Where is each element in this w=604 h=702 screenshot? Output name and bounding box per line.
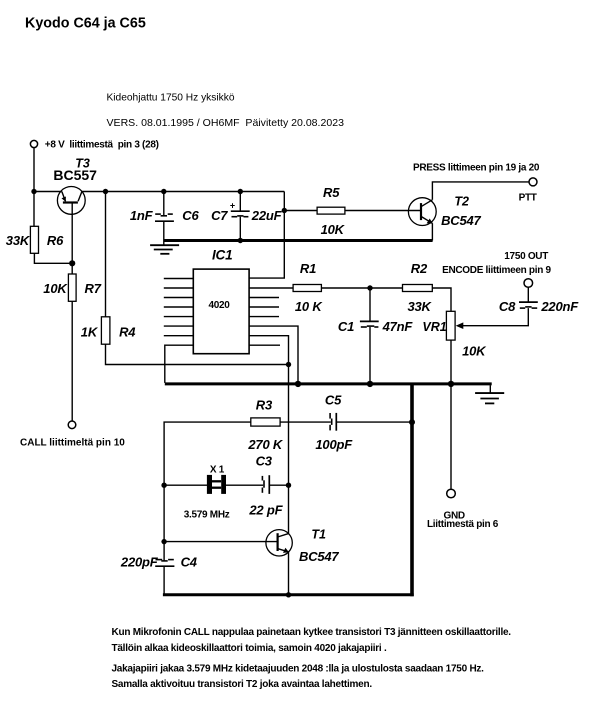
ground symbol right — [475, 385, 504, 403]
capacitor C3 — [262, 475, 288, 494]
label T2 — [454, 194, 469, 208]
label VR1 — [422, 320, 446, 334]
label Liittimestä pin 6 — [427, 519, 499, 530]
label +8V — [45, 140, 159, 151]
wire to R5 — [284, 210, 317, 212]
oscillator left vertical wire — [163, 566, 165, 594]
label 33K R2 — [408, 299, 433, 314]
svg-text:BC547: BC547 — [299, 549, 339, 564]
terminal PTT — [529, 178, 537, 186]
svg-text:BC547: BC547 — [441, 213, 481, 228]
label 22 pF — [248, 502, 283, 517]
node C7 top — [238, 189, 243, 194]
ground bus lower — [165, 382, 492, 385]
wire T3 base down — [71, 203, 73, 264]
label R4 — [119, 325, 136, 340]
label 4020 — [209, 300, 231, 311]
resistor R1 — [293, 285, 321, 292]
wire crystal to C3 — [226, 484, 263, 486]
label C8 — [499, 299, 516, 314]
wire R1 to R2 — [321, 287, 402, 289]
node C7 ground — [238, 238, 243, 243]
wire R2 to VR1 — [432, 288, 451, 311]
svg-text:1nF: 1nF — [130, 208, 154, 223]
wire IC pin to R1 — [249, 287, 293, 289]
wire R5 to T2 base — [345, 210, 421, 212]
svg-text:4020: 4020 — [209, 300, 231, 311]
svg-text:10 K: 10 K — [295, 299, 323, 314]
wire R7 to CALL — [71, 301, 73, 421]
svg-text:R4: R4 — [119, 325, 136, 340]
capacitor C6 — [155, 192, 174, 246]
label BC547 T2 — [441, 213, 481, 228]
svg-text:Kideohjattu 1750 Hz yksikkö: Kideohjattu 1750 Hz yksikkö — [107, 93, 235, 104]
node T1 base left — [161, 539, 166, 544]
wire T2 collector to PTT — [432, 182, 529, 200]
capacitor C7 — [230, 192, 250, 241]
wire to crystal — [164, 484, 207, 486]
label 47nF — [382, 319, 414, 334]
label C3 — [256, 454, 273, 469]
svg-text:10K: 10K — [321, 222, 346, 237]
label 100pF — [315, 437, 353, 452]
VR1 wiper arrow — [456, 322, 464, 329]
wire R6 bottom to base node — [34, 253, 72, 263]
terminal +8V — [30, 140, 37, 147]
svg-text:R7: R7 — [85, 281, 102, 296]
svg-text:T1: T1 — [311, 528, 326, 542]
wire node to R7 — [71, 263, 73, 274]
label R7 — [85, 281, 102, 296]
wire T1 emitter to bottom bus — [288, 552, 290, 595]
wire IC pin7 clock net down — [249, 336, 288, 534]
node clock/R4 — [286, 362, 291, 367]
IC right pin stubs — [249, 298, 280, 346]
svg-text:C3: C3 — [256, 454, 273, 469]
node base/R7 — [69, 260, 75, 266]
capacitor C4 — [155, 560, 174, 567]
label PRESS — [413, 163, 540, 174]
label T3 — [75, 156, 90, 170]
svg-text:33K: 33K — [6, 233, 31, 248]
label 270 K — [247, 437, 284, 452]
svg-text:Kyodo C64 ja C65: Kyodo C64 ja C65 — [25, 16, 146, 32]
ground under C6 — [150, 245, 179, 254]
wire T2 emitter to bus — [431, 223, 433, 240]
transistor T3 — [57, 187, 85, 215]
svg-text:10K: 10K — [43, 281, 68, 296]
label PTT — [519, 192, 537, 203]
terminal ENCODE — [524, 279, 533, 288]
label BC557 — [53, 167, 97, 183]
svg-text:+8 V liittimestä pin 3 (28): +8 V liittimestä pin 3 (28) — [45, 140, 159, 151]
node R4 top — [103, 189, 108, 194]
svg-text:VERS. 08.01.1995 / OH6MF Päiv: VERS. 08.01.1995 / OH6MF Päivitetty 20.0… — [107, 117, 345, 129]
label 33K — [6, 233, 31, 248]
crystal X1 — [207, 475, 226, 494]
capacitor C1 — [360, 288, 379, 383]
label 22uF — [251, 208, 283, 223]
wire +8V corner down to IC pin1 — [249, 192, 284, 279]
label ENCODE — [442, 265, 551, 276]
thick ground vertical right — [410, 383, 414, 596]
capacitor C5 — [330, 413, 412, 431]
svg-text:C6: C6 — [182, 208, 199, 223]
label 220pF — [120, 555, 159, 570]
label 10 K — [295, 299, 323, 314]
svg-text:Tällöin alkaa kideoskillaattor: Tällöin alkaa kideoskillaattori toimia, … — [112, 643, 387, 654]
svg-text:C5: C5 — [325, 393, 342, 408]
svg-text:220nF: 220nF — [540, 299, 579, 314]
svg-text:22 pF: 22 pF — [248, 502, 283, 517]
node C1 top — [367, 285, 372, 290]
svg-text:C1: C1 — [338, 319, 354, 334]
label 220nF — [540, 299, 579, 314]
label 1K — [81, 325, 99, 340]
svg-text:33K: 33K — [408, 299, 433, 314]
label 10K R7 — [43, 281, 68, 296]
svg-text:C7: C7 — [211, 208, 228, 223]
svg-text:T2: T2 — [454, 194, 469, 208]
wire wiper to C8 — [463, 308, 529, 326]
svg-text:Samalla aktivoituu transistori: Samalla aktivoituu transistori T2 joka a… — [112, 679, 373, 690]
wire IC pin6 to ground bus — [249, 326, 298, 383]
label IC1 — [212, 247, 232, 262]
svg-text:CALL liittimeltä pin 10: CALL liittimeltä pin 10 — [20, 437, 125, 448]
svg-text:R3: R3 — [256, 398, 273, 413]
label X 1 — [210, 464, 225, 475]
node junction +8V rail left — [31, 189, 36, 194]
IC left pin 8 to ground bus — [165, 345, 194, 383]
svg-text:C4: C4 — [181, 555, 198, 570]
subtitle line 1 — [107, 93, 235, 104]
label C6 — [182, 208, 199, 223]
terminal GND — [447, 489, 456, 498]
node xtal left — [161, 483, 166, 488]
svg-text:R5: R5 — [323, 185, 340, 200]
transistor T1 — [266, 530, 292, 556]
label R2 — [411, 261, 428, 276]
label R3 — [256, 398, 273, 413]
node C6 top — [161, 189, 166, 194]
thick ground bottom bus — [163, 593, 414, 596]
potentiometer VR1 — [446, 311, 455, 340]
svg-text:10K: 10K — [462, 344, 487, 359]
label CALL — [20, 437, 125, 448]
svg-text:220pF: 220pF — [120, 555, 159, 570]
subtitle line 2 — [107, 117, 345, 129]
svg-text:C8: C8 — [499, 299, 516, 314]
label C4 — [181, 555, 198, 570]
label R5 — [323, 185, 340, 200]
wire rail T3 to corner — [82, 191, 284, 193]
svg-text:270 K: 270 K — [247, 437, 284, 452]
wire R3 to C5 — [280, 421, 331, 423]
label BC547 T1 — [299, 549, 339, 564]
transistor T2 — [408, 198, 436, 226]
label 1750 OUT — [504, 251, 548, 262]
wire +8V terminal down to rail — [33, 148, 35, 227]
resistor R7 — [68, 274, 76, 301]
note paragraph line 2 — [112, 643, 387, 654]
resistor R4 — [101, 317, 110, 344]
IC U1 4020 body — [193, 269, 249, 354]
node bus pin6 — [295, 381, 301, 387]
resistor R5 — [317, 207, 345, 214]
node R5 branch — [282, 208, 287, 213]
title — [25, 16, 146, 32]
label T1 — [311, 528, 326, 542]
node emitter bus — [286, 592, 291, 597]
label C7 — [211, 208, 228, 223]
wire T1 base — [164, 541, 278, 543]
svg-text:BC557: BC557 — [53, 167, 97, 183]
svg-text:VR1: VR1 — [422, 320, 446, 334]
note paragraph line 3 — [112, 664, 485, 675]
label R6 — [47, 233, 64, 248]
IC left pin stubs — [164, 279, 194, 336]
node bus VR1 — [448, 381, 454, 387]
label C5 — [325, 393, 342, 408]
resistor R2 — [403, 285, 433, 292]
svg-text:+: + — [230, 200, 235, 210]
svg-text:PRESS littimeen pin 19 ja 20: PRESS littimeen pin 19 ja 20 — [413, 163, 540, 174]
capacitor C8 — [519, 287, 538, 308]
svg-text:R1: R1 — [300, 261, 316, 276]
svg-text:Jakajapiiri jakaa 3.579 MHz ki: Jakajapiiri jakaa 3.579 MHz kidetaajuude… — [112, 664, 485, 675]
node C5 ground — [409, 419, 415, 425]
svg-text:47nF: 47nF — [382, 319, 414, 334]
ground bus upper — [164, 239, 432, 242]
svg-text:PTT: PTT — [519, 192, 537, 203]
svg-text:1K: 1K — [81, 325, 99, 340]
svg-text:ENCODE liittimeen pin 9: ENCODE liittimeen pin 9 — [442, 265, 551, 276]
wire rail down to R4 — [105, 192, 107, 317]
node C3 clock — [286, 483, 291, 488]
label 10K under R5 — [321, 222, 346, 237]
svg-text:3.579 MHz: 3.579 MHz — [184, 510, 230, 521]
wire VR1 bottom to GND terminal — [450, 340, 452, 489]
svg-text:R2: R2 — [411, 261, 428, 276]
svg-text:Liittimestä pin 6: Liittimestä pin 6 — [427, 519, 499, 530]
svg-text:IC1: IC1 — [212, 247, 232, 262]
label R1 — [300, 261, 316, 276]
wire R4 bottom to clock net — [106, 344, 289, 364]
terminal CALL — [68, 421, 76, 429]
label GND — [444, 510, 465, 521]
label 1nF — [130, 208, 154, 223]
label C1 — [338, 319, 354, 334]
note paragraph line 1 — [112, 627, 512, 638]
svg-text:1750 OUT: 1750 OUT — [504, 251, 548, 262]
svg-text:Kun Mikrofonin CALL nappulaa p: Kun Mikrofonin CALL nappulaa painetaan k… — [112, 627, 512, 638]
resistor R6 — [30, 226, 38, 253]
wire rail to T3 emitter — [34, 191, 62, 193]
svg-text:X 1: X 1 — [210, 464, 225, 475]
resistor R3 — [251, 418, 280, 426]
label 10K VR1 — [462, 344, 487, 359]
svg-text:100pF: 100pF — [315, 437, 353, 452]
label 3.579 MHz — [184, 510, 230, 521]
note paragraph line 4 — [112, 679, 373, 690]
node bus C1 — [367, 381, 373, 387]
svg-text:22uF: 22uF — [251, 208, 283, 223]
svg-text:R6: R6 — [47, 233, 64, 248]
